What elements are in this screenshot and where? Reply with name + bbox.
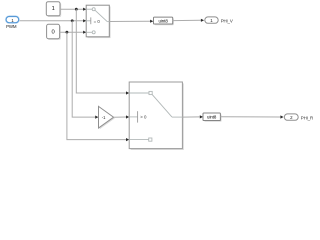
data type conversion D1 uint8 xyxy=(154,17,174,25)
constant C0 value 0 xyxy=(47,24,61,40)
svg-text:= 0: = 0 xyxy=(94,19,101,24)
svg-text:uint8: uint8 xyxy=(207,115,217,120)
svg-text:PWM: PWM xyxy=(6,24,17,29)
svg-text:-1: -1 xyxy=(102,115,106,120)
wire PWM to switch control xyxy=(20,19,87,22)
data type conversion D2 uint8 xyxy=(203,113,222,122)
svg-text:PHI_R: PHI_R xyxy=(301,115,313,120)
wire constant0 to switch input3 xyxy=(60,31,87,34)
svg-text:PHI_V: PHI_V xyxy=(221,18,233,23)
junction node on constant1 wire xyxy=(75,8,78,11)
wire junction PWM down to gain G1 xyxy=(72,21,98,119)
outport 1 PHI_V xyxy=(205,17,233,23)
svg-text:1: 1 xyxy=(52,6,55,12)
gain G1 value -1 xyxy=(99,106,115,129)
svg-text:> 0: > 0 xyxy=(140,115,147,120)
wire uint8 D2 to outport PHI_R xyxy=(220,115,283,118)
inport 1 PWM xyxy=(5,16,19,29)
junction node on constant0 wire xyxy=(66,31,69,34)
wire junction constant0 down to switch U2 input3 xyxy=(67,32,129,141)
wire uint8 D1 to outport PHI_V xyxy=(173,19,204,22)
outport 2 PHI_R xyxy=(284,114,313,120)
svg-text:0: 0 xyxy=(51,30,54,36)
switch U2 (lower) xyxy=(129,82,184,150)
svg-text:uint8: uint8 xyxy=(158,18,168,23)
wire switch U1 to uint8 D1 xyxy=(109,20,153,23)
constant C1 value 1 xyxy=(46,2,61,17)
junction node on PWM wire xyxy=(71,19,74,22)
switch U1 (upper) xyxy=(86,5,110,38)
wire constant1 to switch input1 xyxy=(60,8,86,11)
wire switch U2 to uint8 D2 xyxy=(182,115,203,118)
wire gain G1 to switch U2 control xyxy=(114,115,130,118)
wire junction constant1 down to switch U2 input1 xyxy=(76,9,129,94)
